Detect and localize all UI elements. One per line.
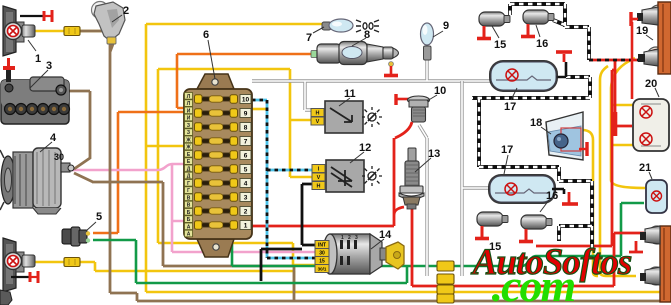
svg-text:Г: Г	[187, 188, 190, 194]
wire: brown generator 30 lower run	[74, 173, 294, 301]
parking lamp 17 bottom	[488, 174, 564, 204]
pilot lamp 7	[322, 19, 379, 32]
wire: black-white striped ground loop bottom right	[479, 167, 592, 250]
svg-text:1: 1	[244, 222, 248, 229]
wire: red fuse 1 feed	[252, 225, 394, 228]
svg-text:7: 7	[244, 138, 248, 145]
wire: black switch 12 to ignition INT	[302, 184, 316, 245]
wire: white (gray outline) switch 10 to lamp 17 bottom via connector	[419, 81, 492, 276]
wire: orange fuse box to sensor 5	[93, 112, 185, 233]
svg-text:И: И	[187, 116, 191, 122]
wire: brown battery to generator 30	[62, 91, 90, 169]
svg-text:З: З	[187, 123, 190, 129]
svg-text:И: И	[187, 108, 191, 114]
svg-text:З: З	[187, 130, 190, 136]
bulb 9	[421, 23, 434, 60]
svg-text:8: 8	[364, 29, 370, 41]
wire: yellow net headlamp-top to lamp 7 / fuse box / bottom run	[146, 24, 671, 292]
svg-text:20: 20	[645, 78, 657, 90]
svg-text:Д: Д	[187, 166, 191, 172]
relay 11	[311, 101, 363, 133]
connector on white wire pair	[437, 274, 454, 284]
svg-text:19: 19	[636, 25, 648, 37]
svg-text:5: 5	[96, 211, 102, 223]
svg-text:18: 18	[530, 117, 542, 129]
svg-text:3: 3	[46, 60, 52, 72]
stop-lamp switch 10	[396, 94, 430, 122]
svg-text:11: 11	[344, 88, 356, 100]
side lamp 15 top	[477, 12, 510, 39]
headlamp 1 (bottom left)	[3, 238, 38, 292]
svg-text:30: 30	[54, 152, 64, 162]
wire: yellow net switches 11/12 and ignition 30/1	[158, 69, 316, 265]
lamp icon beside switch 12	[362, 166, 382, 186]
turn indicator 19 top	[631, 2, 671, 99]
side lamp 16 bottom	[519, 215, 552, 242]
wire: red right side vertical to lamp 19 top	[613, 112, 618, 136]
svg-text:3: 3	[355, 235, 358, 241]
ignition switch 14	[315, 234, 404, 274]
oil pressure sensor 5	[62, 227, 90, 246]
svg-text:7: 7	[306, 32, 312, 44]
ground symbol near lamp 17 top	[552, 52, 572, 77]
svg-text:9: 9	[244, 110, 248, 117]
svg-text:14: 14	[379, 229, 392, 241]
svg-text:21: 21	[639, 162, 651, 174]
horn fragment bottom left corner	[0, 290, 12, 305]
wire: blue-black striped fuse box to switch 12 and ignition 15	[252, 100, 316, 258]
svg-text:10: 10	[242, 96, 250, 103]
wire: black-white striped ground loop top (lamps 15,16,17)	[472, 4, 590, 167]
svg-text:А: А	[187, 224, 191, 230]
boot lamp 21	[646, 180, 667, 213]
svg-text:4: 4	[244, 180, 248, 187]
fuse box terminal letter column	[185, 93, 193, 238]
svg-text:Л: Л	[187, 101, 191, 107]
svg-text:Ж: Ж	[185, 137, 191, 143]
wire: red stop-switch 10/13 circuit to rear lamps	[394, 60, 644, 286]
headlamp 1 (top left)	[3, 6, 52, 56]
svg-text:15: 15	[319, 259, 325, 265]
item number labels 1-21 and terminal 30	[35, 5, 657, 253]
connector on green wire	[437, 261, 454, 271]
switch 12	[312, 160, 364, 192]
svg-text:Б: Б	[187, 210, 191, 216]
battery 3	[1, 58, 70, 124]
wire: white (gray outline) lamp 9 to relay 11 and lamp 17 top	[252, 59, 491, 110]
wire: green sensor 5 to bottom run and lamp 21	[93, 203, 644, 283]
fuse box terminal number column	[240, 95, 251, 230]
svg-text:2: 2	[348, 235, 351, 241]
lamp icon beside relay 11	[362, 107, 382, 127]
svg-text:V: V	[317, 175, 321, 181]
wire: brown switch 2 down to bottom run	[80, 31, 671, 301]
wire: yellow headlamp bottom lead to bottom run	[35, 262, 294, 292]
svg-text:15: 15	[494, 39, 506, 51]
svg-text:Б: Б	[187, 217, 191, 223]
connector on headlamp 1 bottom wire	[64, 258, 80, 267]
callout leader lines for items 1-21	[28, 15, 659, 249]
wire: black ignition area drop	[261, 249, 302, 281]
svg-text:Л: Л	[187, 94, 191, 100]
ground symbol in bottom-right striped loop	[562, 192, 578, 204]
svg-text:16: 16	[536, 38, 548, 50]
side lamp 16 top	[521, 10, 554, 37]
light switch 2	[92, 2, 126, 45]
svg-text:Ж: Ж	[185, 145, 191, 151]
svg-text:3: 3	[244, 194, 248, 201]
svg-text:9: 9	[443, 20, 449, 32]
brake switch 13	[399, 148, 424, 209]
fuse box body	[184, 74, 252, 257]
svg-text:16: 16	[546, 190, 558, 202]
fuses 1-10 inside fuse box	[195, 95, 238, 229]
svg-text:Д: Д	[187, 174, 191, 180]
wire: yellow headlamp top lead	[34, 30, 112, 33]
svg-text:.com: .com	[492, 260, 575, 305]
svg-text:2: 2	[123, 5, 129, 17]
svg-text:А: А	[187, 232, 191, 238]
svg-text:Г: Г	[187, 181, 190, 187]
tail lamp 20	[633, 99, 669, 151]
svg-text:Н: Н	[317, 184, 321, 190]
svg-text:17: 17	[501, 144, 513, 156]
svg-text:1: 1	[35, 53, 41, 65]
wire: red-black striped feed to turn lamp 19 top	[589, 59, 638, 62]
svg-text:6: 6	[203, 29, 209, 41]
turn indicator 19 bottom	[640, 226, 671, 302]
svg-text:17: 17	[504, 101, 516, 113]
svg-text:В: В	[187, 195, 191, 201]
svg-text:12: 12	[359, 142, 371, 154]
svg-text:В: В	[187, 203, 191, 209]
courtesy lamp 8	[311, 42, 399, 76]
connector on headlamp 1 top wire	[64, 27, 80, 36]
lamp 7 ray icon	[356, 20, 379, 32]
svg-text:6: 6	[244, 152, 248, 159]
generator 4	[0, 148, 74, 214]
svg-text:4: 4	[50, 132, 57, 144]
wire: yellow right-side marker light feeds	[252, 58, 645, 276]
svg-text:13: 13	[428, 148, 440, 160]
svg-text:8: 8	[244, 124, 248, 131]
svg-text:V: V	[316, 119, 320, 125]
svg-text:2: 2	[244, 208, 248, 215]
svg-text:30/1: 30/1	[318, 267, 327, 272]
side lamp 15 bottom	[475, 212, 508, 239]
svg-text:1: 1	[341, 235, 344, 241]
license lamp 18	[546, 112, 587, 160]
parking lamp 17 top	[489, 60, 558, 92]
svg-text:INT: INT	[318, 243, 326, 249]
svg-text:30: 30	[319, 251, 325, 257]
wire: orange lamp 8 to fuse box	[177, 54, 313, 108]
svg-text:Н: Н	[316, 111, 320, 117]
wire: pink generator 30 to fuse box and ignition 30	[72, 164, 316, 252]
connector stack on bottom wires	[437, 285, 454, 294]
svg-text:5: 5	[244, 166, 248, 173]
svg-text:10: 10	[434, 85, 446, 97]
